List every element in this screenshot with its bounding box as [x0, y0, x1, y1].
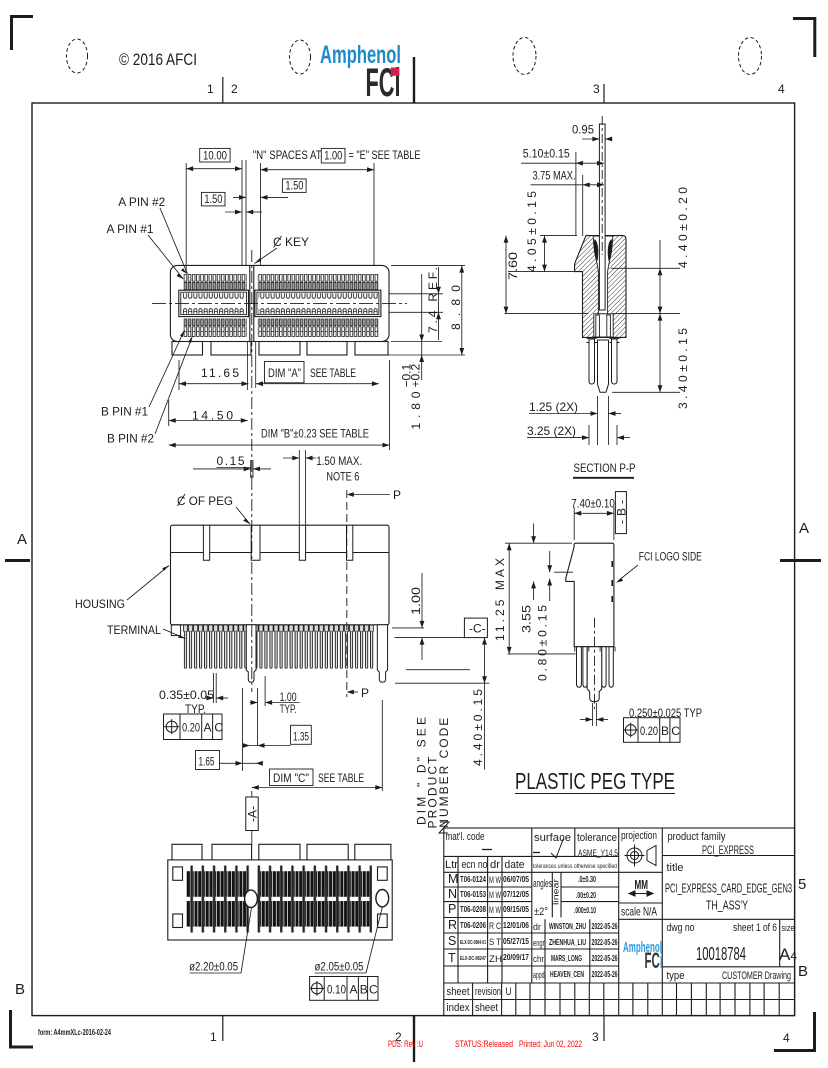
- dim 1.35 boxed: [291, 725, 312, 744]
- zone tick bottom 2|3 thick: [413, 1016, 415, 1062]
- dim 11.65: [179, 360, 249, 390]
- svg-text:07/12/05: 07/12/05: [503, 889, 529, 899]
- svg-text:1.80: 1.80: [409, 391, 423, 429]
- svg-text:MARS_LONG: MARS_LONG: [551, 953, 582, 963]
- svg-text:4: 4: [778, 82, 785, 96]
- svg-text:PDS: Rev :U: PDS: Rev :U: [388, 1039, 423, 1049]
- svg-text:.000±0.10: .000±0.10: [574, 905, 596, 915]
- svg-text:dr: dr: [533, 922, 541, 933]
- svg-text:ø2.20±0.05: ø2.20±0.05: [189, 960, 238, 974]
- h line under tol value row1: [561, 886, 619, 888]
- svg-text:TERMINAL: TERMINAL: [107, 623, 161, 637]
- svg-text:0.20: 0.20: [182, 721, 200, 735]
- dim DIM B: [169, 360, 390, 450]
- horizontal centerline: [152, 303, 407, 305]
- datum -A-: [246, 797, 258, 831]
- registration ellipse 1: [67, 39, 88, 73]
- corner square bl: [173, 914, 183, 928]
- svg-text:7.60: 7.60: [506, 252, 520, 280]
- svg-text:T: T: [448, 951, 456, 965]
- svg-text:Printed: Jun 02, 2022: Printed: Jun 02, 2022: [519, 1039, 582, 1049]
- peg centerline: [251, 478, 253, 692]
- feature control frame B C: [623, 718, 680, 743]
- card slot notch 2: [251, 525, 260, 560]
- svg-text:ZH: ZH: [489, 954, 502, 964]
- contact retention blob left: [594, 239, 599, 261]
- dim 14.50: [169, 400, 248, 426]
- dim text 10.00 boxed: [200, 148, 230, 162]
- tail feet marks: [587, 339, 620, 343]
- h line under projection cell: [619, 871, 663, 873]
- ext line N-spaces left: [260, 163, 262, 265]
- datum -C-: [464, 618, 487, 638]
- dim text 1.50 left boxed: [201, 192, 225, 206]
- svg-text:B: B: [360, 983, 368, 997]
- svg-text:SECTION P-P: SECTION P-P: [574, 461, 636, 475]
- svg-text:sheet 1 of 6: sheet 1 of 6: [733, 922, 777, 934]
- svg-text:sheet: sheet: [475, 1002, 498, 1014]
- svg-text:TH_ASS'Y: TH_ASS'Y: [706, 899, 748, 913]
- h line under Ltr header: [444, 871, 619, 873]
- peg hole right: [376, 890, 389, 907]
- svg-text:A PIN #1: A PIN #1: [107, 222, 154, 236]
- svg-text:ELX-DC-0984-01: ELX-DC-0984-01: [460, 940, 486, 946]
- tolerance value texts: [574, 874, 596, 915]
- svg-text:T06-0206: T06-0206: [460, 920, 486, 930]
- svg-text:R: R: [448, 918, 457, 932]
- zone tick bottom 1|2: [222, 1016, 224, 1041]
- leader left hole: [241, 908, 252, 973]
- svg-text:ø2.05±0.05: ø2.05±0.05: [315, 960, 364, 974]
- dim line 10.00: [186, 168, 242, 170]
- ext line 10.00 left: [185, 163, 187, 273]
- v line date|mid col: [531, 828, 533, 983]
- svg-text:0.95: 0.95: [572, 123, 594, 137]
- svg-text:P: P: [393, 488, 401, 502]
- svg-text:appd: appd: [533, 970, 545, 981]
- svg-text:1.00: 1.00: [324, 148, 342, 162]
- svg-text:ELX-DC-98247: ELX-DC-98247: [460, 956, 486, 962]
- h line under N row: [444, 901, 532, 903]
- svg-text:B PIN #2: B PIN #2: [107, 432, 154, 446]
- svg-text:B: B: [15, 981, 25, 998]
- zone tick top 1|2: [222, 77, 224, 103]
- corner square br: [378, 914, 388, 928]
- top tab 4: [307, 844, 348, 860]
- card slot notch 1: [203, 525, 209, 560]
- slot box right outer: [255, 290, 381, 316]
- pin centerline: [601, 116, 603, 255]
- svg-text:1: 1: [207, 82, 214, 96]
- svg-text:B PIN #1: B PIN #1: [101, 405, 148, 419]
- feature control frame A C: [164, 714, 223, 740]
- svg-text:A: A: [799, 520, 809, 537]
- svg-text:.00±0.20: .00±0.20: [576, 890, 596, 900]
- svg-text:product family: product family: [668, 831, 726, 843]
- svg-text:FCI LOGO SIDE: FCI LOGO SIDE: [639, 550, 702, 564]
- registration ellipse 2: [290, 40, 311, 74]
- top tab 1: [172, 844, 202, 860]
- svg-text:sheet: sheet: [447, 986, 470, 998]
- svg-text:1.35: 1.35: [293, 729, 309, 743]
- leader right hole: [366, 907, 382, 973]
- h line under header row (left part): [444, 855, 619, 857]
- peg centerline side: [593, 618, 595, 709]
- dim line 1.50 right: [261, 196, 289, 198]
- svg-text:5: 5: [798, 876, 806, 893]
- h line under P row: [444, 917, 532, 919]
- svg-text:T06-0208: T06-0208: [460, 904, 486, 914]
- contact row A left: [183, 307, 245, 314]
- pin band lower right: [258, 901, 372, 927]
- dim DIM C: [270, 769, 314, 786]
- svg-text:1.25 (2X): 1.25 (2X): [529, 400, 578, 414]
- pin row top-right: [258, 274, 379, 290]
- title block outline: [444, 828, 795, 1016]
- z mark corner: [439, 822, 449, 833]
- svg-text:3: 3: [593, 82, 600, 96]
- ledge ext line left: [508, 271, 575, 273]
- svg-text:CUSTOMER Drawing: CUSTOMER Drawing: [722, 970, 791, 982]
- card slot notch 4: [347, 525, 353, 560]
- v line sign date end: [589, 919, 591, 983]
- svg-text:size: size: [782, 923, 795, 933]
- svg-text:R C: R C: [489, 921, 501, 931]
- svg-text:SEE TABLE: SEE TABLE: [310, 366, 356, 380]
- svg-text:A: A: [350, 983, 358, 997]
- fci logo dashes on right edge: [611, 561, 613, 602]
- mounting tab 3: [259, 342, 300, 356]
- svg-text:Ltr: Ltr: [445, 859, 458, 871]
- svg-text:angles: angles: [533, 878, 552, 890]
- h line top of type row: [662, 966, 794, 968]
- title block texts: [445, 830, 797, 1014]
- dim 7.4 REF: [389, 267, 443, 340]
- svg-text:revision: revision: [475, 986, 501, 998]
- key slot wall right: [253, 265, 255, 341]
- svg-text:1.50: 1.50: [204, 192, 222, 206]
- v line angles|linear: [551, 872, 553, 917]
- svg-text:DIM "A": DIM "A": [268, 366, 301, 380]
- svg-text:10.00: 10.00: [203, 148, 227, 162]
- svg-text:HEAVEN_CEN: HEAVEN_CEN: [550, 969, 584, 979]
- pin row bottom-left: [184, 319, 247, 337]
- solder tail left: [589, 339, 595, 384]
- svg-text:dr: dr: [490, 859, 500, 871]
- svg-text:T06-0124: T06-0124: [460, 874, 486, 884]
- corner crop mark top-right: [793, 17, 816, 57]
- svg-text:mat'l. code: mat'l. code: [446, 831, 485, 843]
- arrows 1.50 right: [239, 195, 268, 200]
- bottom slot white: [594, 314, 613, 337]
- svg-text:20/09/17: 20/09/17: [503, 952, 529, 962]
- plastic peg right front: [377, 625, 387, 683]
- svg-text:tolerances unless otherwise sp: tolerances unless otherwise specified: [533, 863, 617, 870]
- svg-text:M W: M W: [489, 905, 501, 915]
- svg-text:engr: engr: [533, 938, 545, 949]
- svg-text:title: title: [667, 862, 684, 874]
- ext line pair 1.50: [241, 160, 243, 265]
- svg-text:0.15: 0.15: [217, 454, 245, 468]
- svg-text:2022-05-26: 2022-05-26: [592, 937, 618, 947]
- arrows 1.50 left: [235, 210, 253, 215]
- svg-text:M: M: [448, 872, 458, 886]
- svg-text:2022-05-26: 2022-05-26: [592, 953, 618, 963]
- contact cavity white channel: [593, 236, 613, 314]
- svg-text:3.25 (2X): 3.25 (2X): [527, 424, 576, 438]
- v line size divider: [779, 919, 781, 967]
- arrows 10.00: [186, 166, 242, 171]
- slot box right inner: [257, 292, 379, 314]
- svg-text:STATUS:Released: STATUS:Released: [455, 1039, 513, 1049]
- v line ecn|dr: [487, 856, 489, 983]
- peg hole left: [245, 890, 258, 907]
- svg-text:09/15/05: 09/15/05: [503, 904, 529, 914]
- svg-text:4.40±0.15: 4.40±0.15: [471, 689, 485, 766]
- dim 1.80 +0.2/-0.1: [391, 274, 442, 380]
- pin row top-left: [184, 274, 247, 290]
- housing body front: [171, 525, 390, 625]
- plastic peg center front: [246, 625, 256, 683]
- projection symbol: [625, 845, 657, 867]
- pin band upper left: [186, 871, 247, 897]
- svg-text:06/07/05: 06/07/05: [503, 874, 529, 884]
- v line linear|values: [560, 872, 562, 917]
- drawing border: [32, 103, 795, 1016]
- terminal comb: [183, 625, 374, 669]
- corner crop mark top-left: [10, 15, 33, 50]
- v line projection|title: [661, 828, 663, 983]
- revision table rows: [448, 872, 502, 965]
- svg-text:A PIN #2: A PIN #2: [118, 195, 165, 209]
- top tab 2: [212, 844, 252, 860]
- connector body outline top view: [170, 265, 389, 341]
- svg-text:date: date: [505, 859, 525, 871]
- top tab 3: [259, 844, 300, 860]
- svg-text:WINSTON_ZHU: WINSTON_ZHU: [549, 921, 586, 931]
- slot box left inner: [181, 292, 247, 314]
- svg-text:projection: projection: [621, 830, 657, 842]
- svg-text:11.65: 11.65: [201, 366, 239, 380]
- svg-text:C: C: [671, 724, 680, 738]
- corner crop mark bottom-right: [774, 1012, 816, 1051]
- svg-text:12/01/06: 12/01/06: [503, 920, 529, 930]
- side tick left A|B: [5, 559, 30, 562]
- contact row A right: [259, 307, 379, 314]
- legs below body: [577, 647, 614, 702]
- svg-text:A: A: [17, 531, 27, 548]
- svg-text:0.20: 0.20: [640, 724, 658, 738]
- h line under S row / engr row: [444, 948, 619, 950]
- svg-text:+0.2: +0.2: [409, 363, 423, 387]
- h line under R row / dr row: [444, 932, 619, 934]
- svg-text:B: B: [798, 963, 808, 980]
- svg-text:PCI_EXPRESS: PCI_EXPRESS: [702, 843, 754, 857]
- dim line 1.50 left: [225, 211, 242, 213]
- svg-text:tolerance: tolerance: [577, 832, 617, 844]
- v line sign name|date: [544, 919, 546, 983]
- mounting tab 5: [355, 342, 388, 356]
- zone tick bottom 3|4: [603, 1016, 605, 1041]
- datum -B-: [615, 492, 626, 534]
- svg-text:3.55: 3.55: [520, 605, 534, 633]
- h line under product family: [662, 855, 794, 857]
- svg-text:3.40±0.15: 3.40±0.15: [676, 328, 690, 409]
- h line above scale cell: [619, 902, 663, 904]
- corner square tl: [173, 867, 183, 880]
- svg-text:DIM "C": DIM "C": [273, 771, 309, 785]
- mounting tab 2: [211, 342, 251, 356]
- contact retention blob right: [608, 239, 613, 261]
- h line under tol value row2: [561, 901, 619, 903]
- key slot wall left: [249, 265, 251, 341]
- dim DIM A: [256, 383, 379, 385]
- svg-text:FCi: FCi: [645, 948, 664, 973]
- svg-text:© 2016 AFCI: © 2016 AFCI: [119, 51, 197, 69]
- svg-text:10018784: 10018784: [696, 944, 746, 964]
- pin row bottom-right: [258, 319, 379, 337]
- svg-text:NOTE 6: NOTE 6: [326, 470, 359, 484]
- svg-text:PCI_EXPRESS_CARD_EDGE_GEN3: PCI_EXPRESS_CARD_EDGE_GEN3: [665, 882, 792, 896]
- svg-text:4.40±0.20: 4.40±0.20: [676, 187, 690, 268]
- svg-text:U: U: [506, 986, 512, 998]
- svg-text:DIM "B"±0.23 SEE TABLE: DIM "B"±0.23 SEE TABLE: [261, 427, 369, 441]
- svg-text:2022-05-26: 2022-05-26: [592, 921, 618, 931]
- svg-text:1: 1: [210, 1030, 217, 1044]
- svg-text:MM: MM: [635, 878, 649, 892]
- svg-text:05/27/15: 05/27/15: [503, 936, 529, 946]
- dim 1.65 boxed: [196, 751, 220, 770]
- svg-text:"N" SPACES AT: "N" SPACES AT: [253, 148, 323, 162]
- svg-text:.0±0.30: .0±0.30: [578, 874, 596, 884]
- body outline bottom view: [168, 860, 392, 940]
- long pins overlay upper: [186, 866, 372, 903]
- pin band lower left: [186, 901, 247, 927]
- v line surface|tolerance: [574, 828, 576, 856]
- svg-text:M W: M W: [489, 890, 501, 900]
- long pins overlay lower: [186, 896, 372, 933]
- v lines sheet index grid: [472, 983, 474, 1016]
- section line P vertical: [346, 490, 348, 697]
- pin band upper right: [258, 871, 372, 897]
- svg-text:= "E" SEE TABLE: = "E" SEE TABLE: [349, 148, 421, 162]
- dim 8.80: [358, 266, 465, 355]
- plastic peg center: [598, 340, 609, 392]
- svg-text:-C-: -C-: [469, 622, 486, 636]
- contact tails in bottom slot: [596, 315, 600, 337]
- zone tick top 2|3 thick: [413, 57, 415, 103]
- svg-text:3.75 MAX.: 3.75 MAX.: [533, 169, 576, 183]
- svg-text:HOUSING: HOUSING: [75, 597, 125, 611]
- svg-text:SEE TABLE: SEE TABLE: [318, 771, 364, 785]
- svg-text:4: 4: [783, 1031, 790, 1045]
- svg-text:scale N/A: scale N/A: [621, 905, 657, 919]
- svg-text:M W: M W: [489, 875, 501, 885]
- h line under T row / chr row: [444, 965, 619, 967]
- registration ellipse 4: [739, 38, 762, 75]
- arrows N spaces: [261, 167, 375, 172]
- v line dr|date: [501, 856, 503, 983]
- slot box left outer: [179, 290, 249, 316]
- svg-text:14.50: 14.50: [192, 409, 233, 423]
- housing cross-section hatched body: [575, 236, 626, 338]
- svg-text:0.80±0.15: 0.80±0.15: [536, 605, 550, 681]
- top tab 5: [355, 844, 391, 860]
- svg-text:ASME_Y14.5: ASME_Y14.5: [578, 848, 618, 858]
- v line Ltr|ecn: [457, 856, 459, 983]
- svg-text:2022-05-26: 2022-05-26: [592, 969, 618, 979]
- sign rows: [533, 922, 545, 981]
- key extension lines below body: [247, 342, 249, 391]
- svg-text:P: P: [448, 902, 456, 916]
- dim text 1.50 right boxed: [282, 179, 306, 193]
- corner square tr: [378, 867, 388, 880]
- svg-text:7.4 REF.: 7.4 REF.: [426, 267, 440, 333]
- feature control frame A B C: [310, 977, 379, 1001]
- side body outline: [566, 543, 614, 647]
- svg-text:surface: surface: [534, 832, 571, 844]
- solder tail right: [612, 339, 618, 384]
- registration ellipse 3: [513, 38, 536, 75]
- svg-text:C KEY: C KEY: [273, 235, 309, 249]
- center peg side: [587, 647, 602, 702]
- mounting tab 4: [307, 342, 347, 356]
- h line top of dwg-no row: [619, 918, 795, 920]
- svg-text:1.50 MAX.: 1.50 MAX.: [316, 454, 362, 468]
- svg-text:A: A: [204, 721, 212, 735]
- svg-text:±2°: ±2°: [534, 906, 548, 918]
- svg-text:P: P: [361, 686, 369, 700]
- svg-text:NUMBER CODE: NUMBER CODE: [437, 718, 451, 828]
- svg-text:3: 3: [592, 1030, 599, 1044]
- key centerline vertical: [251, 250, 253, 478]
- svg-text:C: C: [214, 721, 223, 735]
- svg-text:N: N: [448, 887, 457, 901]
- svg-text:C: C: [369, 983, 378, 997]
- svg-text:1.65: 1.65: [199, 755, 215, 769]
- side tick right A|B: [780, 559, 821, 562]
- svg-text:2: 2: [231, 82, 238, 96]
- svg-text:linear: linear: [552, 879, 561, 905]
- terminal shoulders: [183, 625, 374, 632]
- svg-text:type: type: [667, 970, 685, 982]
- svg-text:index: index: [447, 1002, 470, 1014]
- svg-text:0.10: 0.10: [327, 983, 346, 997]
- svg-text:-A-: -A-: [246, 806, 260, 822]
- svg-text:dwg no: dwg no: [667, 922, 695, 934]
- v line mid|projection: [618, 828, 620, 983]
- svg-text:B: B: [661, 724, 669, 738]
- svg-text:ZHENHUA_LIU: ZHENHUA_LIU: [549, 937, 586, 947]
- svg-text:TYP.: TYP.: [280, 702, 297, 716]
- svg-text:1.50: 1.50: [285, 179, 303, 193]
- svg-text:7.40±0.10: 7.40±0.10: [571, 497, 615, 511]
- svg-text:5.10±0.15: 5.10±0.15: [523, 147, 570, 161]
- press-fit pin body: [599, 124, 605, 310]
- svg-text:-B-: -B-: [615, 500, 629, 524]
- svg-text:C OF PEG: C OF PEG: [177, 494, 233, 508]
- leg feet marks: [575, 647, 615, 652]
- svg-text:4.05±0.15: 4.05±0.15: [525, 191, 539, 272]
- card slot notch 3: [299, 525, 305, 560]
- svg-text:S T: S T: [489, 937, 501, 947]
- svg-text:0.35±0.05: 0.35±0.05: [159, 688, 214, 702]
- surface check mark: [551, 837, 564, 858]
- svg-text:form: A4mmXLc-2016-02-24: form: A4mmXLc-2016-02-24: [38, 1027, 111, 1037]
- svg-text:ecn no: ecn no: [462, 859, 488, 871]
- mounting tab 1: [172, 342, 203, 356]
- dim line N spaces: [261, 169, 375, 171]
